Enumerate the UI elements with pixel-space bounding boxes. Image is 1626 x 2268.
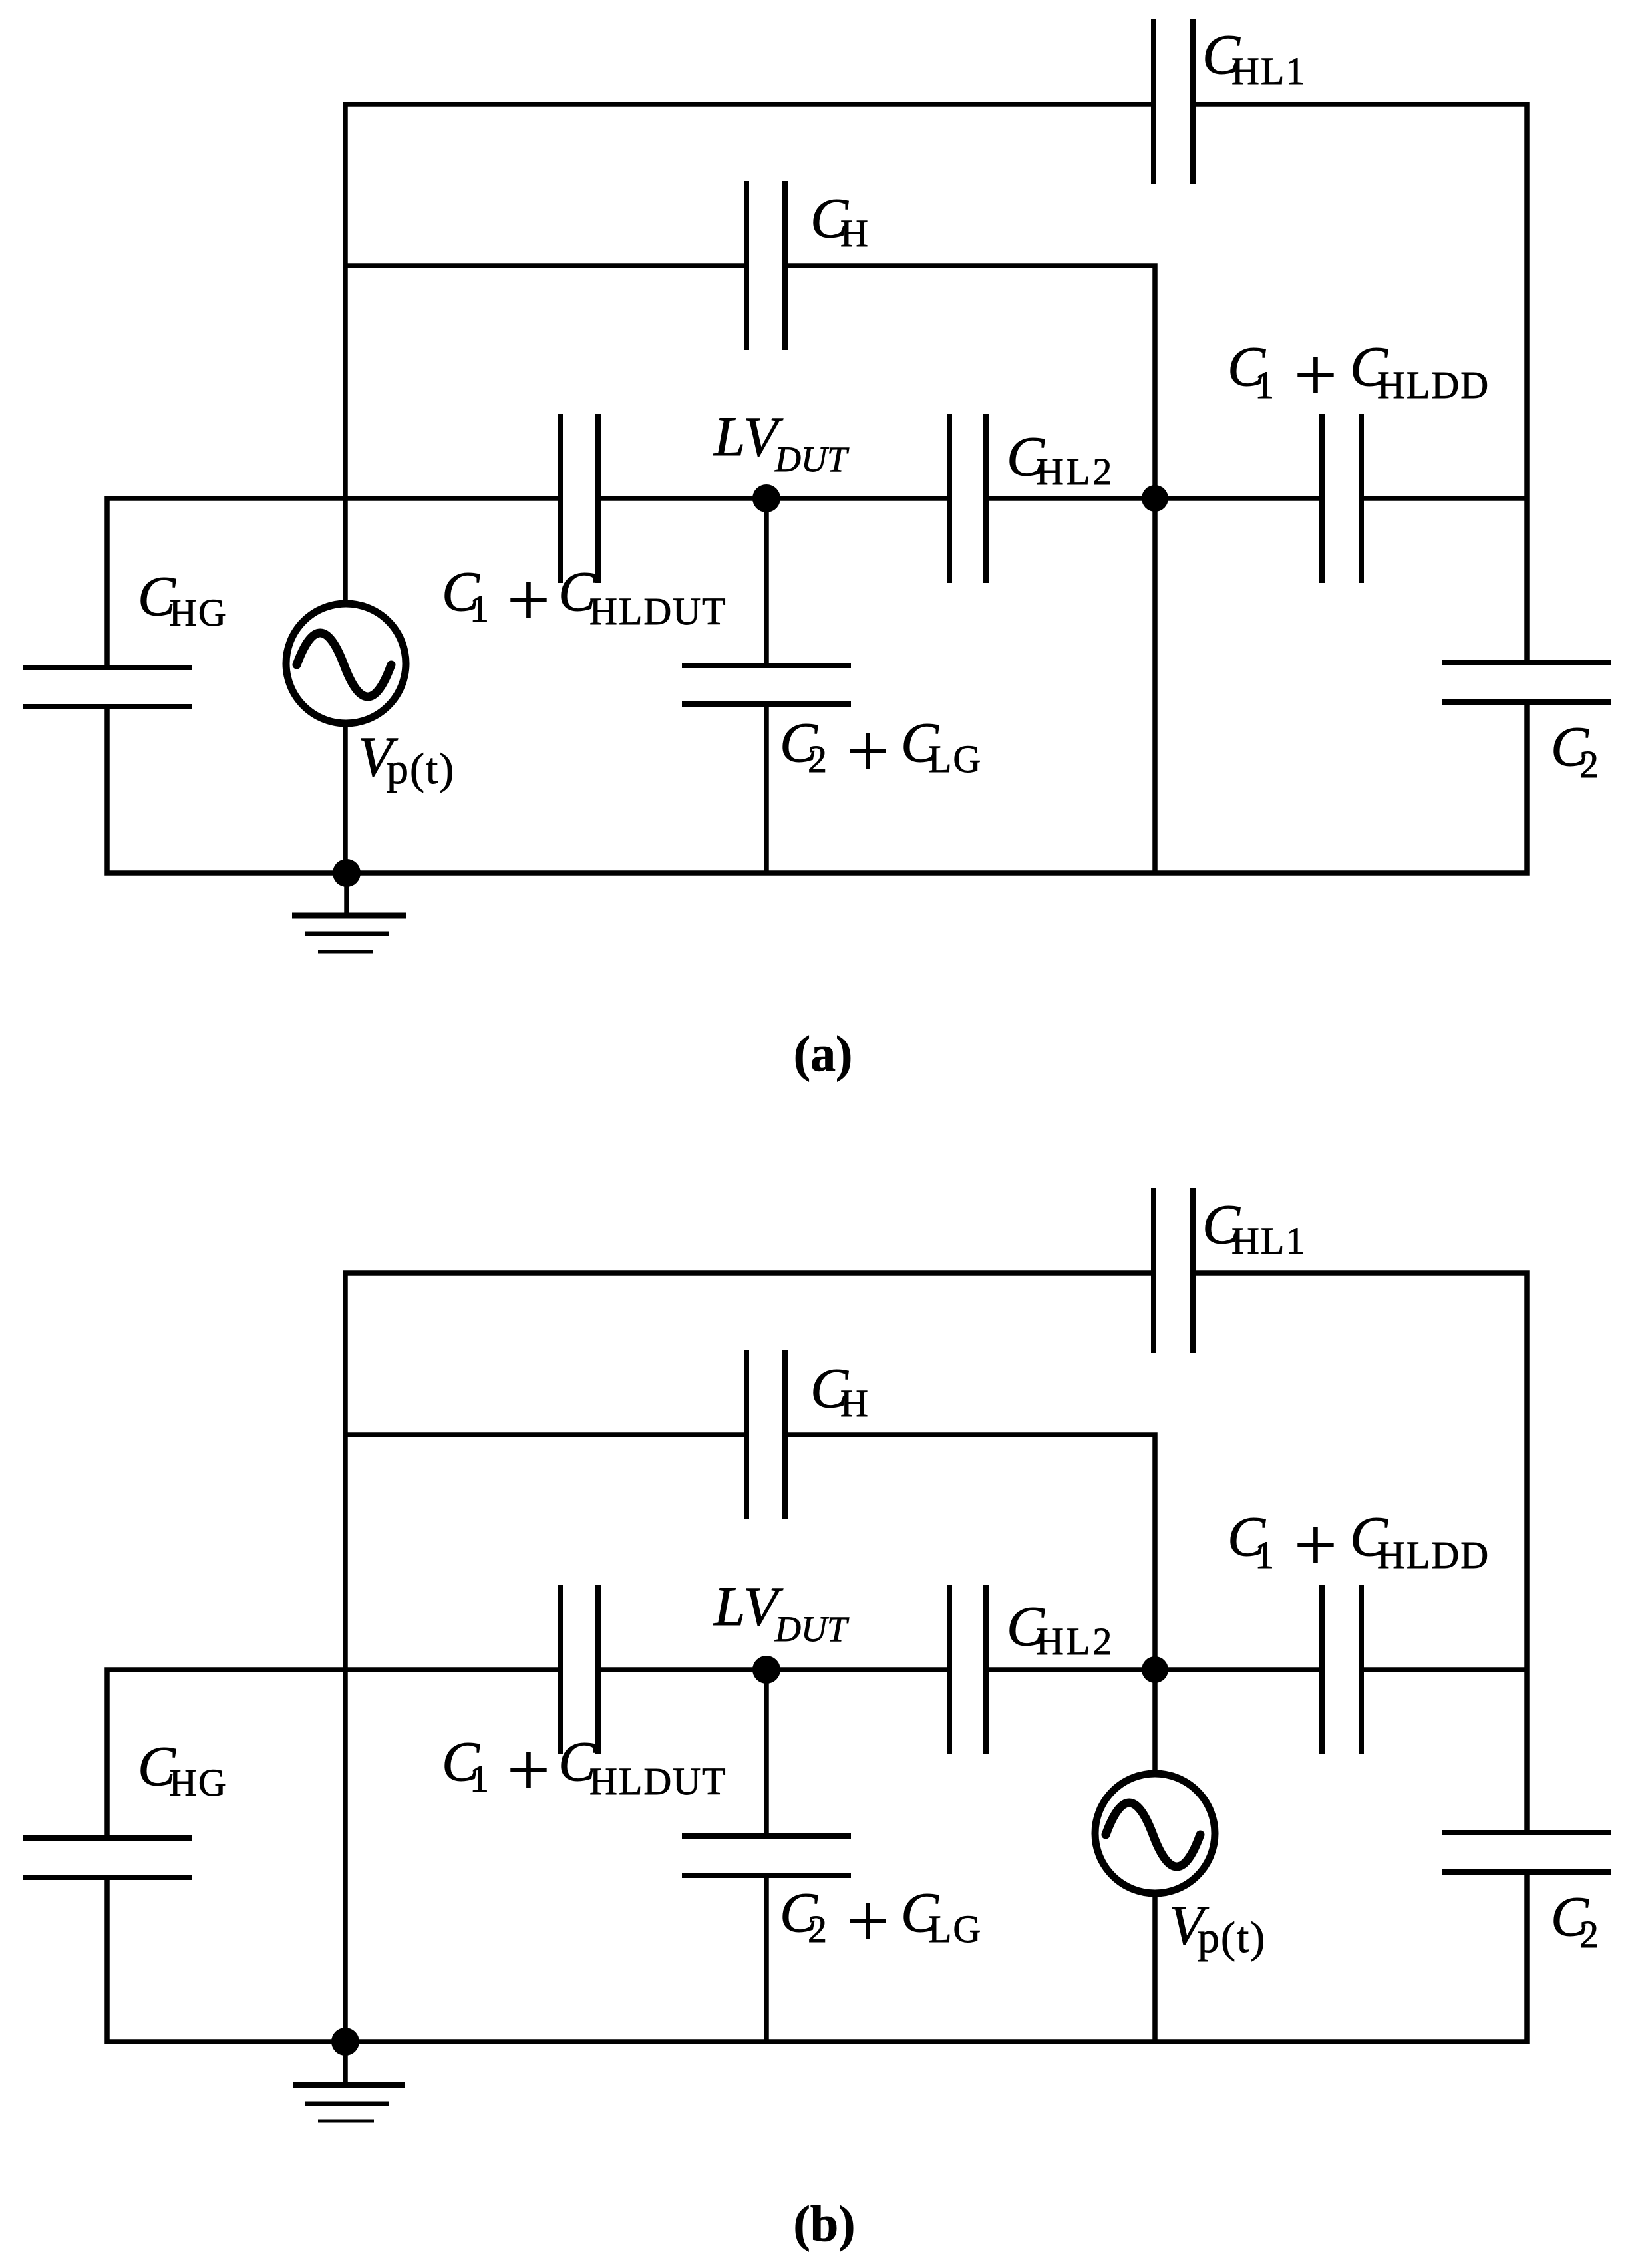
svg-text:+: + [846, 709, 890, 793]
svg-text:2: 2 [1579, 1913, 1600, 1956]
svg-text:p(t): p(t) [387, 745, 455, 793]
svg-text:2: 2 [1579, 743, 1600, 786]
svg-text:HLDUT: HLDUT [589, 1760, 727, 1803]
svg-text:1: 1 [1255, 1533, 1275, 1577]
svg-text:LV: LV [713, 1575, 784, 1638]
svg-text:H: H [840, 212, 870, 255]
svg-text:(b): (b) [794, 2196, 856, 2252]
svg-text:1: 1 [1255, 363, 1275, 407]
svg-text:HL2: HL2 [1036, 450, 1114, 493]
svg-text:HLDD: HLDD [1377, 1533, 1490, 1577]
svg-text:p(t): p(t) [1198, 1913, 1266, 1962]
svg-text:1: 1 [470, 1757, 490, 1800]
svg-text:DUT: DUT [774, 1609, 850, 1649]
svg-text:HG: HG [169, 1761, 228, 1804]
svg-text:LV: LV [713, 405, 784, 468]
svg-text:1: 1 [470, 587, 490, 630]
svg-text:2: 2 [808, 737, 828, 781]
svg-text:HG: HG [169, 591, 228, 634]
svg-text:HL2: HL2 [1036, 1620, 1114, 1663]
svg-text:DUT: DUT [774, 439, 850, 479]
svg-text:+: + [507, 1728, 550, 1812]
svg-text:LG: LG [928, 737, 982, 781]
svg-text:HL1: HL1 [1231, 1219, 1306, 1262]
svg-text:LG: LG [928, 1907, 982, 1951]
svg-text:HLDUT: HLDUT [589, 590, 727, 633]
svg-text:+: + [507, 558, 550, 642]
svg-text:+: + [846, 1879, 890, 1963]
svg-text:+: + [1294, 1503, 1337, 1587]
svg-text:H: H [840, 1382, 870, 1425]
svg-text:+: + [1294, 333, 1337, 417]
svg-text:HL1: HL1 [1231, 49, 1306, 93]
svg-text:HLDD: HLDD [1377, 363, 1490, 407]
svg-text:(a): (a) [794, 1026, 853, 1082]
svg-text:2: 2 [808, 1907, 828, 1951]
